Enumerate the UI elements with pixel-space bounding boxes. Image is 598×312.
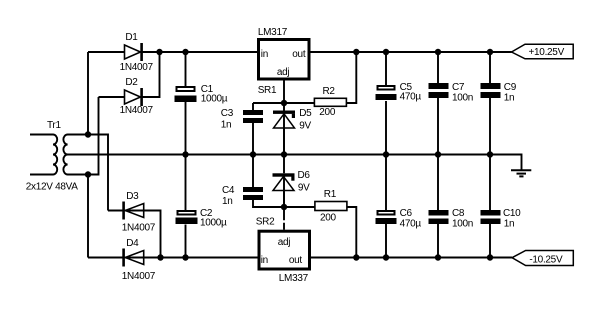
svg-text:D1: D1	[125, 32, 138, 43]
svg-text:470µ: 470µ	[400, 92, 422, 103]
svg-text:470µ: 470µ	[400, 219, 422, 230]
svg-text:R2: R2	[323, 86, 336, 97]
svg-text:1N4007: 1N4007	[120, 105, 154, 116]
svg-text:D4: D4	[126, 238, 139, 249]
svg-text:1n: 1n	[222, 196, 233, 207]
svg-text:9V: 9V	[299, 121, 311, 132]
svg-text:100n: 100n	[452, 93, 473, 104]
svg-text:C4: C4	[222, 185, 235, 196]
svg-text:100n: 100n	[452, 219, 473, 230]
svg-text:SR2: SR2	[256, 217, 275, 228]
svg-text:1000µ: 1000µ	[201, 94, 228, 105]
svg-text:1N4007: 1N4007	[122, 271, 156, 282]
svg-text:1N4007: 1N4007	[122, 223, 156, 234]
svg-text:out: out	[292, 49, 306, 60]
svg-text:C3: C3	[221, 108, 234, 119]
svg-text:C6: C6	[400, 208, 413, 219]
svg-text:in: in	[261, 49, 268, 60]
svg-text:adj: adj	[278, 237, 291, 248]
svg-text:-10.25V: -10.25V	[529, 254, 563, 265]
svg-text:Tr1: Tr1	[47, 120, 61, 131]
svg-text:C8: C8	[452, 208, 465, 219]
svg-text:9V: 9V	[298, 183, 310, 194]
svg-text:2x12V 48VA: 2x12V 48VA	[26, 182, 78, 193]
svg-text:SR1: SR1	[258, 85, 277, 96]
svg-text:1N4007: 1N4007	[120, 62, 154, 73]
svg-text:R1: R1	[324, 189, 337, 200]
svg-text:D5: D5	[299, 108, 312, 119]
svg-text:1000µ: 1000µ	[200, 218, 227, 229]
svg-text:1n: 1n	[504, 219, 515, 230]
svg-text:out: out	[289, 255, 303, 266]
svg-text:+10.25V: +10.25V	[529, 47, 565, 58]
svg-text:D6: D6	[298, 170, 311, 181]
svg-text:200: 200	[320, 213, 337, 224]
svg-text:200: 200	[319, 107, 336, 118]
svg-text:adj: adj	[277, 67, 290, 78]
svg-text:C7: C7	[452, 82, 465, 93]
svg-text:in: in	[261, 255, 268, 266]
svg-text:C9: C9	[504, 82, 517, 93]
svg-text:D3: D3	[126, 191, 139, 202]
svg-text:C10: C10	[503, 208, 521, 219]
svg-text:D2: D2	[125, 77, 138, 88]
svg-text:1n: 1n	[221, 120, 232, 131]
svg-text:LM317: LM317	[258, 27, 288, 38]
svg-text:LM337: LM337	[279, 273, 309, 284]
svg-text:1n: 1n	[504, 93, 515, 104]
